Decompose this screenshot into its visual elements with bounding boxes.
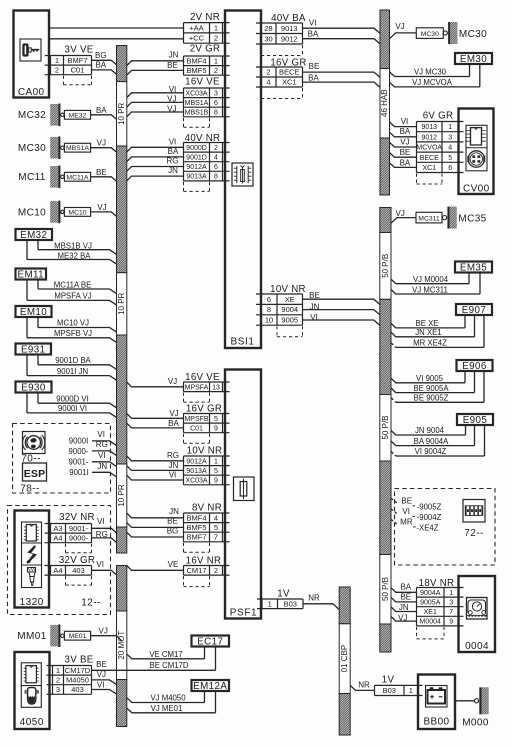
- svg-text:MBS1B: MBS1B: [185, 110, 209, 117]
- wire B03 NR from PSF1 to bar 01CBP: [303, 594, 339, 610]
- wire VI 9004Z from bar 50PB to E905: [391, 426, 485, 457]
- wire BECE BE from bar 46HAB to CV00: [390, 148, 417, 157]
- wire 9012 BA from bar 46HAB to CV00: [390, 127, 417, 137]
- svg-text:VJ: VJ: [97, 139, 106, 148]
- svg-text:3V BE: 3V BE: [65, 655, 94, 666]
- svg-text:VJ MC30: VJ MC30: [414, 68, 447, 77]
- svg-text:BE: BE: [96, 660, 107, 669]
- svg-text:VJ: VJ: [169, 409, 178, 418]
- svg-text:20 MOT: 20 MOT: [117, 631, 126, 660]
- svg-text:8: 8: [267, 305, 271, 314]
- wire from BB00 to ground M000: [455, 700, 475, 702]
- wire 9013A JN from bar 10PR to PSF1: [127, 461, 184, 471]
- svg-text:9012A: 9012A: [186, 458, 207, 465]
- wire MC30 VJ from bar 46HAB to connector MC30: [390, 22, 417, 39]
- svg-text:VJ ME01: VJ ME01: [151, 704, 183, 713]
- svg-text:MPSFB: MPSFB: [184, 416, 208, 423]
- svg-text:BE: BE: [400, 148, 411, 157]
- svg-text:9004: 9004: [281, 305, 298, 314]
- svg-text:BA: BA: [96, 106, 107, 115]
- svg-text:50 P/B: 50 P/B: [381, 415, 390, 439]
- svg-text:6: 6: [214, 164, 218, 171]
- svg-text:16V VE: 16V VE: [185, 372, 220, 383]
- wire BE 9005Z from bar 50PB to E906: [391, 372, 484, 403]
- svg-text:3: 3: [56, 685, 60, 694]
- svg-text:VI 9005: VI 9005: [416, 374, 444, 383]
- svg-text:1: 1: [214, 56, 218, 65]
- wire 9012A RG from bar 10PR to PSF1: [127, 451, 184, 461]
- svg-text:VI: VI: [97, 517, 105, 526]
- svg-text:4: 4: [448, 145, 452, 152]
- svg-text:8: 8: [214, 110, 218, 117]
- svg-text:CV00: CV00: [463, 183, 490, 194]
- wire MPSFA VJ from EM11 to bar 10PR: [27, 280, 117, 306]
- connector table 1V B03 on PSF1: [257, 589, 303, 609]
- wire ME01 VJ to bar 20MOT: [91, 627, 122, 641]
- svg-text:E905: E905: [463, 415, 488, 426]
- svg-text:BG: BG: [167, 526, 179, 535]
- wire XC1 BA from bar 46HAB to CV00: [390, 158, 417, 167]
- wire ME32 BA to bar 10PR: [91, 106, 117, 120]
- svg-text:BE: BE: [96, 168, 107, 177]
- svg-text:NR: NR: [358, 681, 370, 690]
- wire VJ MCVOA from bar 46HAB to EM30: [390, 65, 480, 88]
- svg-text:EM32: EM32: [20, 230, 47, 241]
- svg-text:1V: 1V: [277, 589, 290, 600]
- svg-text:EM35: EM35: [460, 263, 487, 274]
- connector table 10V NR on BSI1: [256, 284, 306, 337]
- connector table 2V GR on BSI1: [184, 44, 230, 76]
- wire BE 9005A from bar 50PB to E906: [391, 372, 475, 394]
- svg-text:MC11: MC11: [18, 172, 46, 183]
- connector table 18V NR on 0004: [417, 578, 464, 639]
- svg-text:BA 9004A: BA 9004A: [414, 437, 449, 446]
- svg-text:9001-: 9001-: [69, 458, 89, 467]
- ground MC30 with connector MBS1A: [18, 136, 91, 159]
- svg-text:9000-: 9000-: [69, 534, 89, 543]
- svg-text:2: 2: [214, 66, 218, 75]
- svg-text:BMF5: BMF5: [186, 523, 206, 532]
- svg-text:2: 2: [214, 34, 218, 43]
- svg-text:-XE4Z: -XE4Z: [416, 523, 438, 532]
- wire C01 BA from bar 10PR to PSF1: [127, 419, 184, 428]
- svg-text:3: 3: [449, 600, 453, 607]
- wire MBS1A VJ from bar 10PR to BSI1: [127, 95, 184, 107]
- icon strip in 4050 (chip + sensor): [21, 663, 41, 708]
- gauge icon in 0004: [467, 598, 488, 620]
- svg-text:RG: RG: [96, 440, 108, 449]
- svg-text:MPSFB VJ: MPSFB VJ: [54, 329, 92, 338]
- svg-text:JN: JN: [169, 461, 179, 470]
- svg-text:MC35: MC35: [458, 213, 486, 224]
- svg-text:9012: 9012: [421, 134, 437, 141]
- svg-text:BA: BA: [95, 60, 106, 69]
- svg-text:+AA: +AA: [189, 23, 203, 32]
- svg-text:1V: 1V: [382, 675, 395, 686]
- svg-text:CM17D: CM17D: [65, 666, 91, 675]
- svg-text:BECE: BECE: [420, 155, 439, 162]
- svg-text:MCVOA: MCVOA: [416, 145, 442, 152]
- harness bar 46 HAB (right, top): [380, 10, 390, 195]
- splice EM35 box: [455, 262, 492, 274]
- wire MBS1B VJ from bar 10PR to BSI1: [127, 104, 184, 116]
- svg-text:1: 1: [214, 23, 218, 32]
- svg-text:6: 6: [267, 295, 271, 304]
- wire BA 9004A from bar 50PB to E905: [391, 426, 475, 446]
- svg-text:2: 2: [56, 676, 60, 685]
- svg-text:1320: 1320: [20, 597, 44, 608]
- svg-text:BE: BE: [167, 61, 178, 70]
- svg-text:JN: JN: [169, 507, 179, 516]
- wire BE -9005Z in 72 box: [391, 496, 442, 511]
- connector table 1V B03 on BB00: [375, 675, 423, 696]
- svg-text:MR: MR: [400, 518, 413, 527]
- svg-text:9012A: 9012A: [186, 164, 207, 171]
- ground MC32 with connector ME32: [18, 104, 91, 127]
- wire ME32 BA from EM32 to bar 10PR: [27, 240, 117, 264]
- wire 9000- RG from 1320 to bar 10PR: [92, 530, 117, 543]
- wire 9005 VI from BSI1 to bar 50PB: [303, 313, 380, 325]
- svg-text:1: 1: [55, 56, 59, 65]
- wire XE1 JN from bar 50PB to 0004: [391, 603, 417, 612]
- svg-text:BE: BE: [309, 291, 320, 300]
- svg-text:MC311: MC311: [418, 215, 440, 222]
- splice EM11 box: [16, 269, 47, 281]
- svg-text:MC11A: MC11A: [66, 174, 89, 181]
- splice EC17 box: [192, 636, 230, 648]
- svg-text:EM10: EM10: [20, 307, 47, 318]
- svg-text:XC03A: XC03A: [185, 90, 208, 97]
- wire 9004A BA from bar 50PB to 0004: [391, 583, 417, 593]
- svg-text:9000I: 9000I: [69, 437, 89, 446]
- svg-text:VJ: VJ: [97, 670, 106, 679]
- svg-text:EM11: EM11: [18, 270, 44, 281]
- wire 9012A RG from bar 10PR to BSI1: [127, 157, 184, 172]
- wire 9000I VI from E930 to bar 10PR: [27, 393, 117, 418]
- wire 9000- RG from ESP to bar 10PR: [69, 440, 117, 456]
- svg-text:9000D VI: 9000D VI: [56, 394, 89, 403]
- svg-text:6: 6: [448, 165, 452, 172]
- svg-text:MPSFA VJ: MPSFA VJ: [54, 292, 91, 301]
- svg-text:VJ M0004: VJ M0004: [413, 275, 449, 284]
- svg-text:MR XE4Z: MR XE4Z: [413, 338, 447, 347]
- wire BMF7 BG from bar 10PR to PSF1: [127, 526, 184, 537]
- wire XC03A VI from bar 10PR to BSI1: [127, 85, 184, 97]
- svg-text:BECE: BECE: [279, 68, 299, 77]
- svg-text:9001D BA: 9001D BA: [55, 356, 91, 365]
- component 72 dashed box (diagnostic connector): [395, 489, 496, 566]
- svg-text:BA: BA: [308, 29, 319, 38]
- wire MR XE4Z from bar 50PB to E907: [391, 316, 484, 348]
- svg-text:10V NR: 10V NR: [187, 446, 223, 457]
- svg-text:VI: VI: [309, 18, 317, 27]
- connector table 40V BA on BSI1: [256, 13, 306, 56]
- component 4050 box (oxygen sensor): [15, 652, 50, 729]
- svg-text:9001D: 9001D: [186, 155, 207, 162]
- svg-text:5: 5: [214, 523, 218, 532]
- svg-text:VJ MCVOA: VJ MCVOA: [412, 78, 453, 87]
- splice E930 box: [16, 382, 52, 394]
- component 1320 outer dashed box: [8, 506, 111, 615]
- svg-text:VI: VI: [402, 507, 410, 516]
- svg-text:CA00: CA00: [18, 87, 45, 98]
- svg-text:4050: 4050: [20, 717, 44, 728]
- ground MC35 with connector MC311: [416, 207, 487, 229]
- svg-text:9000I VI: 9000I VI: [58, 404, 87, 413]
- connector table 16V VE on PSF1: [184, 372, 230, 402]
- DIP switch icon in 72 box: [463, 500, 485, 523]
- wire 9001D BA from bar 10PR to BSI1: [127, 147, 184, 162]
- ABS warning icon in ESP box: [23, 432, 46, 454]
- svg-text:9013: 9013: [281, 24, 298, 33]
- wire CM17D BE from 4050 through bar 20MOT: [92, 660, 127, 671]
- svg-text:32V GR: 32V GR: [59, 555, 95, 566]
- svg-text:1: 1: [214, 458, 218, 465]
- connector table 40V NR on BSI1: [184, 133, 230, 191]
- ESP control unit dashed box: [13, 424, 111, 494]
- svg-text:2: 2: [214, 566, 218, 575]
- wire 9001- VI from ESP to bar 10PR: [69, 451, 117, 467]
- svg-text:16V VE: 16V VE: [185, 77, 220, 88]
- wire 9004 JN from BSI1 to bar 50PB: [303, 303, 380, 315]
- svg-text:9000D: 9000D: [186, 145, 207, 152]
- svg-text:VJ: VJ: [400, 138, 409, 147]
- svg-text:5: 5: [214, 468, 218, 475]
- svg-text:5: 5: [448, 155, 452, 162]
- svg-text:VI: VI: [97, 430, 105, 439]
- wire BECE BE from BSI1 to bar 46HAB: [303, 62, 381, 77]
- wire VI 9005 from bar 50PB to E906: [391, 372, 465, 383]
- svg-text:BE: BE: [400, 593, 411, 602]
- splice EM10 box: [16, 306, 52, 318]
- wire VI -9004Z in 72 box: [391, 507, 442, 522]
- wire MPSFA VJ from bar 10PR to PSF1: [127, 377, 184, 387]
- svg-text:EM12A: EM12A: [193, 681, 227, 692]
- wire XC03A VI from bar 10PR to PSF1: [127, 470, 184, 480]
- wire MBS1A VJ to bar 10PR: [91, 139, 117, 153]
- svg-text:BSI1: BSI1: [230, 337, 254, 348]
- svg-text:NR: NR: [308, 594, 320, 603]
- ground MC11 with connector MC11A: [18, 166, 90, 189]
- svg-text:BE XE: BE XE: [416, 319, 439, 328]
- svg-text:MC30: MC30: [459, 29, 487, 40]
- svg-text:9001-: 9001-: [69, 524, 89, 533]
- connector table 3V BE on 4050: [47, 655, 94, 695]
- svg-text:XC1: XC1: [422, 165, 436, 172]
- svg-text:RG: RG: [167, 157, 179, 166]
- harness bar 50 P/B (right): [380, 208, 391, 653]
- wire BMF7 BG to bar 10PR: [92, 51, 117, 65]
- svg-text:10: 10: [265, 316, 273, 325]
- svg-text:VJ: VJ: [168, 377, 177, 386]
- relay/fuse icon in BSI1: [232, 163, 253, 186]
- svg-text:B03: B03: [383, 686, 396, 695]
- svg-text:VI: VI: [97, 680, 105, 689]
- svg-text:JN: JN: [310, 303, 320, 312]
- wire MPSFB VJ from bar 10PR to PSF1: [127, 409, 184, 418]
- svg-text:10 PR: 10 PR: [117, 292, 126, 314]
- svg-text:VI: VI: [310, 313, 318, 322]
- svg-text:3V VE: 3V VE: [65, 44, 94, 55]
- svg-text:VI: VI: [98, 451, 106, 460]
- svg-text:3: 3: [214, 90, 218, 97]
- svg-text:VE: VE: [168, 560, 179, 569]
- svg-text:2V GR: 2V GR: [190, 44, 221, 55]
- svg-text:MC11A BE: MC11A BE: [54, 280, 92, 289]
- wire VJ ME01 from bar 20MOT to EM12A: [127, 691, 216, 713]
- svg-text:2: 2: [214, 145, 218, 152]
- svg-text:9: 9: [449, 619, 453, 626]
- svg-text:2: 2: [266, 68, 270, 77]
- svg-text:E931: E931: [21, 345, 45, 356]
- wire 9001- VI from 1320 to bar 10PR: [92, 517, 117, 533]
- svg-text:50 P/B: 50 P/B: [381, 254, 390, 278]
- svg-text:BA: BA: [168, 147, 179, 156]
- svg-text:A4: A4: [53, 566, 62, 575]
- svg-text:M000: M000: [462, 718, 489, 729]
- harness bar 10 PR (left, upper): [117, 46, 127, 554]
- svg-text:ESP: ESP: [24, 468, 46, 480]
- wire 9001I JN from ESP to bar 10PR: [69, 462, 116, 477]
- svg-text:9012: 9012: [281, 34, 298, 43]
- svg-text:30: 30: [264, 34, 272, 43]
- svg-text:C01: C01: [71, 66, 85, 75]
- svg-text:BMF5: BMF5: [186, 66, 206, 75]
- svg-text:46 HAB: 46 HAB: [380, 89, 389, 117]
- svg-text:4: 4: [266, 78, 270, 87]
- svg-text:XE: XE: [285, 295, 295, 304]
- connector table 3V VE on CA00: [45, 44, 94, 84]
- svg-text:E930: E930: [21, 383, 46, 394]
- svg-text:9004A: 9004A: [420, 590, 441, 597]
- svg-text:VI: VI: [96, 560, 104, 569]
- svg-text:1: 1: [449, 590, 453, 597]
- svg-text:BA: BA: [400, 158, 411, 167]
- svg-text:9005: 9005: [281, 316, 298, 325]
- svg-text:403: 403: [71, 685, 84, 694]
- svg-text:4: 4: [214, 155, 218, 162]
- svg-text:MPSFA: MPSFA: [185, 384, 209, 391]
- wire VJ M4050 from bar 20MOT to EM12A: [127, 691, 205, 703]
- svg-text:VJ: VJ: [396, 209, 405, 218]
- wire 403 VI from 4050 to bar 20MOT: [92, 680, 117, 694]
- svg-text:VI: VI: [401, 117, 409, 126]
- wire 403 VI from 1320 to bar 10PR: [92, 560, 117, 575]
- svg-text:6V GR: 6V GR: [423, 111, 454, 122]
- wire 9012 BA from BSI1 to bar 46HAB: [303, 29, 381, 44]
- svg-text:BE: BE: [167, 517, 178, 526]
- harness bar 20 MOT (left, lower): [117, 566, 127, 727]
- wire 9000D VI from E930 to bar 10PR: [38, 393, 117, 408]
- ESP label box: [23, 463, 47, 481]
- svg-text:9: 9: [214, 478, 218, 485]
- svg-text:5: 5: [214, 416, 218, 423]
- svg-text:VJ M4050: VJ M4050: [150, 694, 186, 703]
- svg-text:6: 6: [214, 100, 218, 107]
- splice E906 box: [457, 360, 493, 372]
- svg-text:EC17: EC17: [197, 637, 223, 648]
- svg-text:BMF7: BMF7: [186, 533, 206, 542]
- svg-text:9013A: 9013A: [186, 468, 207, 475]
- fuse box PSF1: [225, 370, 261, 619]
- wire 9000I VI from ESP to bar 10PR: [69, 430, 117, 446]
- svg-text:JN: JN: [169, 51, 179, 60]
- wire BMF4 JN from bar 10PR to BSI1: [127, 51, 184, 66]
- svg-text:A4: A4: [53, 534, 62, 543]
- wire MC11A BE to bar 10PR: [91, 168, 117, 182]
- splice E905 box: [457, 414, 493, 426]
- svg-text:VJ: VJ: [97, 203, 106, 212]
- svg-text:XE1: XE1: [424, 609, 437, 616]
- wire MC10 VJ to bar 10PR: [91, 203, 117, 217]
- wire MC311 VJ from bar 50PB to connector MC311: [391, 209, 416, 223]
- connector table 32V NR on 1320: [45, 512, 95, 553]
- svg-text:JN: JN: [97, 462, 107, 471]
- chip icon in CV00: [466, 125, 487, 171]
- svg-text:VE CM17: VE CM17: [149, 650, 182, 659]
- svg-text:BA: BA: [400, 583, 411, 592]
- splice EM32 box: [16, 229, 53, 241]
- svg-text:9000-: 9000-: [69, 447, 89, 456]
- splice EM30 box: [455, 53, 492, 65]
- svg-text:MBS1B VJ: MBS1B VJ: [54, 241, 92, 250]
- svg-text:BE CM17D: BE CM17D: [150, 661, 189, 670]
- svg-text:VI 9004Z: VI 9004Z: [415, 447, 447, 456]
- svg-text:BMF4: BMF4: [186, 56, 206, 65]
- wire +AA from CA00 to BSI1: [49, 27, 183, 29]
- svg-text:MC10 VJ: MC10 VJ: [57, 319, 89, 328]
- svg-text:BA: BA: [308, 73, 319, 82]
- wire B03 NR from bar 01CBP to BB00: [350, 681, 374, 691]
- svg-text:40V BA: 40V BA: [271, 13, 306, 24]
- svg-text:4: 4: [214, 513, 218, 522]
- ground MM01 with connector ME01: [17, 624, 90, 647]
- ground MC30 (top right): [416, 22, 487, 44]
- key icon in CA00: [20, 39, 41, 61]
- ECU BSI1 box: [225, 11, 261, 349]
- svg-text:9: 9: [214, 426, 218, 433]
- svg-text:MBS1A: MBS1A: [66, 145, 90, 152]
- svg-text:RG: RG: [167, 451, 179, 460]
- svg-text:BMF4: BMF4: [186, 513, 206, 522]
- svg-text:BA: BA: [400, 127, 411, 136]
- svg-text:-9005Z: -9005Z: [417, 503, 442, 512]
- svg-text:BA: BA: [168, 419, 179, 428]
- svg-text:01 CBP: 01 CBP: [340, 645, 349, 673]
- svg-text:CM17: CM17: [186, 566, 206, 575]
- splice EM12A box: [192, 680, 230, 692]
- wire MPSFB VJ from EM10 to bar 10PR: [27, 317, 117, 342]
- svg-text:8V NR: 8V NR: [192, 503, 222, 514]
- connector table 16V VE on BSI1: [184, 77, 230, 128]
- wire BMF5 BE from bar 10PR to PSF1: [127, 517, 184, 528]
- connector table 32V GR on 1320: [45, 555, 96, 585]
- svg-text:2: 2: [55, 66, 59, 75]
- harness bar 01 CBP (bottom middle): [339, 587, 350, 735]
- wire 9001I JN from E931 to bar 10PR: [27, 355, 117, 381]
- battery icon in BB00: [426, 686, 448, 708]
- svg-text:BG: BG: [95, 51, 107, 60]
- svg-text:VJ: VJ: [99, 627, 108, 636]
- svg-text:+CC: +CC: [189, 34, 205, 43]
- wire VE CM17 from bar 20MOT to EC17: [127, 647, 205, 659]
- svg-text:12--: 12--: [81, 598, 100, 609]
- svg-text:1: 1: [448, 124, 452, 131]
- svg-text:9001I: 9001I: [69, 468, 89, 477]
- connector table 16V GR on PSF1: [184, 404, 230, 444]
- svg-text:MC10: MC10: [18, 207, 46, 218]
- connector table 10V NR on PSF1: [184, 446, 230, 485]
